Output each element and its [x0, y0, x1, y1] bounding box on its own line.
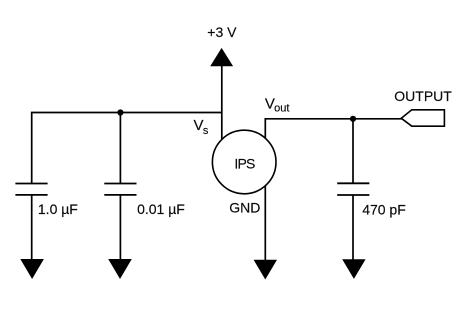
wire: 1.0 uF lower lead — [31, 195, 33, 260]
wire: 0.01 uF lower lead — [119, 195, 121, 260]
wire: GND lead from IPS bottom — [264, 186, 266, 261]
output connector tag — [401, 110, 444, 126]
capacitor 1.0 uF top plate — [15, 183, 47, 185]
wire: 470 pF lower lead — [352, 195, 354, 260]
capacitor 1.0 uF bottom plate — [15, 194, 47, 196]
node junction dot on Vs rail — [117, 109, 123, 115]
svg-text:GND: GND — [229, 199, 260, 215]
capacitor 470 pF top plate — [337, 182, 369, 184]
svg-text:out: out — [274, 103, 289, 115]
ground arrow under 0.01 uF — [108, 259, 132, 279]
capacitor 470 pF bottom plate — [337, 194, 369, 196]
wire: Vout horizontal rail to connector — [265, 118, 403, 120]
svg-text:1.0 µF: 1.0 µF — [38, 201, 78, 217]
IPS sensor circle U1 — [212, 130, 276, 194]
power supply arrow (up triangle) — [210, 48, 233, 66]
wire: left column up + top rail Vs — [32, 113, 222, 184]
wire: supply vertical from +3V down to IPS circle — [221, 66, 223, 140]
capacitor 0.01 uF bottom plate — [104, 194, 136, 196]
wire: Vout stub from IPS to output rail — [264, 119, 266, 139]
svg-text:0.01 µF: 0.01 µF — [137, 201, 185, 217]
ground arrow under 470 pF — [342, 259, 365, 279]
ground arrow under 1.0 uF — [20, 259, 44, 279]
wire: 0.01 uF upper lead from junction dot — [119, 113, 121, 184]
svg-text:+3 V: +3 V — [207, 24, 237, 40]
svg-text:470 pF: 470 pF — [362, 201, 406, 217]
svg-text:IPS: IPS — [234, 156, 255, 172]
ground arrow under IPS — [254, 260, 277, 280]
svg-text:OUTPUT: OUTPUT — [394, 88, 452, 104]
svg-text:s: s — [203, 125, 209, 137]
capacitor 0.01 uF top plate — [104, 183, 136, 185]
wire: 470 pF upper lead — [352, 119, 354, 184]
node junction dot on Vout rail — [350, 116, 356, 122]
